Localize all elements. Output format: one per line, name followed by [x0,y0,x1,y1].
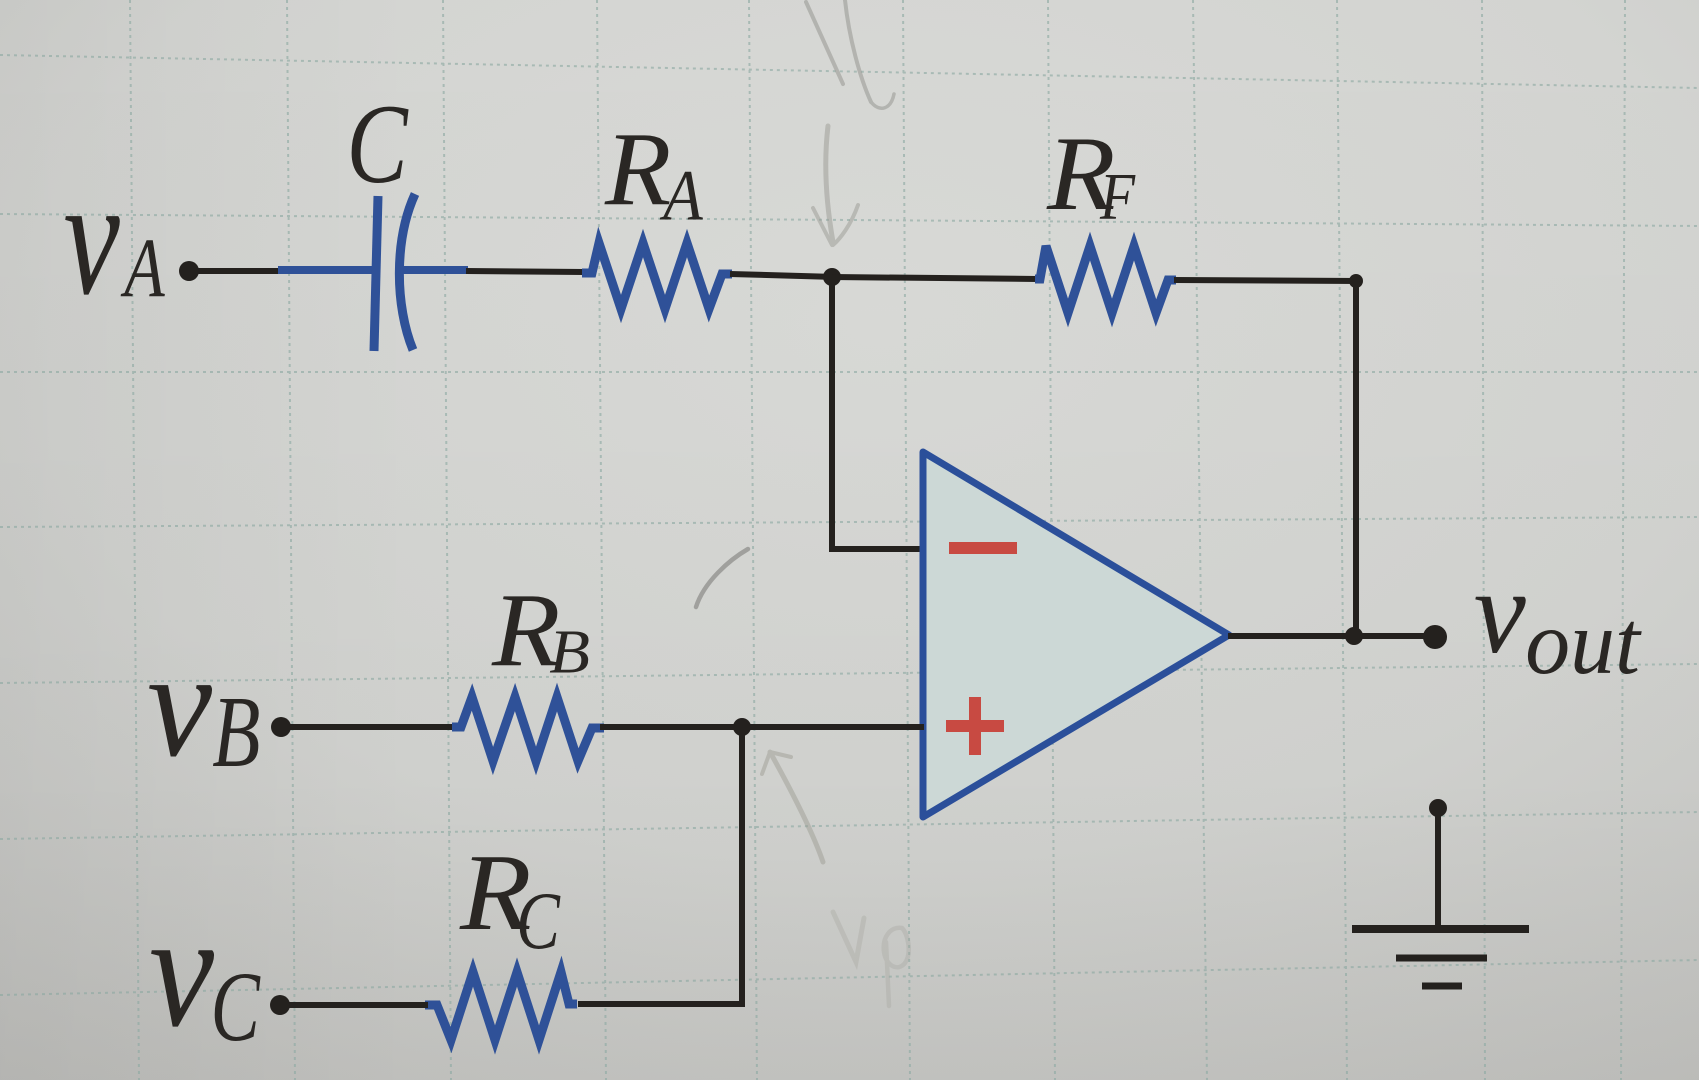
wire node down to inverting input [829,277,835,552]
capacitor C1 left plate [374,196,378,351]
svg-text:B: B [212,676,260,789]
wire RB to node [600,724,746,730]
ground symbol [1352,929,1529,986]
node noninverting junction dot [733,718,751,736]
capacitor C1 right lead (blue) [402,266,468,274]
svg-text:R: R [604,112,671,228]
pencil comma stroke center [696,549,748,607]
svg-text:C: C [347,82,409,207]
node vout terminal dot [1423,625,1447,649]
wire node to plus input [742,724,924,730]
wire RF to corner [1174,280,1359,281]
pencil arrow near vB node [762,752,823,862]
resistor RA [582,243,732,309]
svg-text:B: B [549,617,590,687]
pencil scribble top [806,0,894,108]
wire op-amp output [1228,633,1440,639]
ground node dot [1429,799,1447,817]
svg-text:out: out [1525,591,1641,693]
op-amp minus sign [949,542,1017,554]
resistor RF [1035,246,1176,313]
ground lead wire [1435,808,1441,929]
wire RA to node [730,274,836,277]
node vA terminal dot [179,261,199,281]
svg-text:v: v [64,145,120,330]
wire node to RF [832,277,1037,279]
svg-text:A: A [120,222,165,315]
node output junction dot [1345,627,1363,645]
svg-text:A: A [659,155,702,235]
svg-text:C: C [516,876,561,966]
node vC terminal dot [270,995,290,1015]
op-amp U1 [923,452,1229,817]
wire RC to vC [285,1002,428,1008]
capacitor C1 right plate (curved) [399,194,415,350]
resistor RC [425,972,577,1040]
svg-text:C: C [211,952,261,1062]
svg-text:v: v [1474,546,1526,678]
wire vB to RB [287,724,455,730]
wire corner to RC [578,1001,745,1007]
svg-text:v: v [149,881,214,1061]
node vB terminal dot [271,717,291,737]
wire jog into inverting input [829,546,924,552]
node inverting junction dot [823,268,841,286]
wire node down [739,727,745,1007]
pencil arrow top (pointing down) [813,126,858,245]
wire vA to capacitor [196,268,281,274]
capacitor C1 left lead (blue) [278,266,374,274]
svg-text:F: F [1099,158,1136,233]
node feedback corner dot [1349,274,1363,288]
resistor RB [452,697,604,761]
wire capacitor to RA [466,271,584,272]
pencil v_o bottom center [833,912,909,1006]
op-amp plus sign [946,697,1004,755]
wire feedback vertical [1353,278,1359,639]
svg-text:v: v [147,620,213,788]
